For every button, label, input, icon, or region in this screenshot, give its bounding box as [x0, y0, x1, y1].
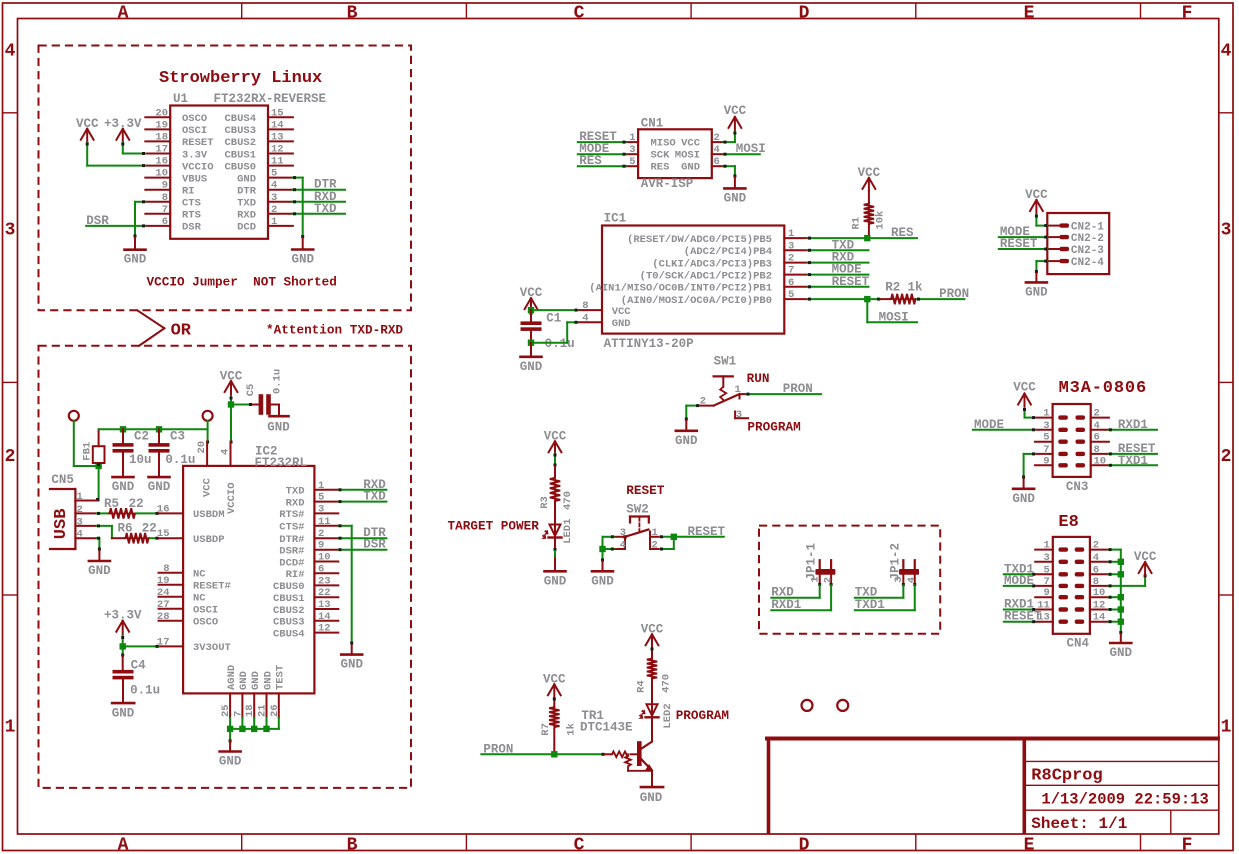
CN4 pin 5 [1035, 573, 1053, 575]
capacitor C2 [122, 429, 124, 443]
svg-text:CN2-3: CN2-3 [1071, 245, 1104, 257]
svg-text:NC: NC [193, 569, 206, 581]
svg-text:GND: GND [267, 420, 290, 434]
connector CN4 body [1053, 537, 1090, 634]
svg-text:VCC: VCC [543, 672, 566, 686]
connector CN2 body [1047, 213, 1109, 274]
svg-text:2: 2 [652, 540, 658, 552]
SW2 pin 4 [614, 548, 625, 550]
svg-text:B: B [347, 3, 358, 23]
net DTR wire from U1 pin4 [293, 189, 345, 191]
net PRON wire to TR1 base [481, 753, 604, 755]
svg-text:F: F [1182, 3, 1193, 23]
svg-text:4: 4 [1093, 552, 1099, 564]
CN4 pin 12 [1090, 609, 1109, 611]
svg-text:CBUS2: CBUS2 [273, 605, 305, 617]
svg-text:C3: C3 [170, 430, 185, 444]
svg-text:+3.3V: +3.3V [104, 117, 142, 131]
ground symbol below SW2 [602, 561, 604, 571]
net RXD wire from U1 pin3 [293, 201, 345, 203]
U1 pin 2 (RXD) [268, 213, 293, 215]
svg-text:Strowberry Linux: Strowberry Linux [159, 69, 322, 88]
CN2 pin CN2-4 [1047, 260, 1060, 262]
net RESET wire from IC1 pin6 [808, 286, 869, 288]
CN1 pin 4 (MOSI) [712, 153, 724, 155]
net RXD1 wire from CN3 pin4 [1109, 429, 1157, 431]
CN4 pin 10 [1090, 596, 1109, 598]
svg-text:CBUS2: CBUS2 [224, 137, 256, 149]
svg-text:8: 8 [163, 563, 169, 575]
svg-text:14: 14 [1093, 612, 1106, 624]
connector CN3 body [1053, 404, 1091, 477]
wire CN4 rail to GND [1119, 631, 1122, 634]
power VCC symbol above R1 [863, 178, 869, 189]
svg-text:GND: GND [340, 658, 363, 672]
svg-text:GND: GND [148, 480, 171, 494]
svg-text:GND: GND [112, 707, 135, 721]
svg-text:20: 20 [196, 441, 208, 454]
svg-text:16: 16 [155, 156, 168, 168]
svg-text:GND: GND [124, 253, 147, 267]
svg-text:19: 19 [155, 119, 168, 131]
CN4 pin 7 [1035, 585, 1053, 587]
junction PB0/MOSI [864, 296, 870, 302]
svg-text:TXD: TXD [286, 486, 305, 498]
svg-text:USB: USB [52, 509, 71, 540]
U1 pin 11 (CBUS0) [268, 165, 293, 167]
svg-text:RUN: RUN [747, 371, 770, 386]
IC IC2 FT232RL body [183, 466, 314, 694]
svg-text:27: 27 [157, 599, 170, 611]
svg-text:4: 4 [220, 449, 232, 455]
svg-text:11: 11 [271, 156, 284, 168]
svg-text:B: B [347, 835, 358, 854]
svg-text:CBUS1: CBUS1 [273, 593, 305, 605]
open pad circle left [69, 411, 79, 421]
svg-text:C5: C5 [245, 384, 257, 397]
power VCC symbol above R4 [646, 634, 652, 645]
svg-text:CBUS3: CBUS3 [224, 125, 256, 137]
svg-text:12: 12 [271, 144, 284, 156]
svg-text:10k: 10k [875, 211, 887, 230]
svg-text:GND: GND [262, 671, 274, 690]
junction C1 bottom [528, 340, 534, 346]
ground symbol below C5 [270, 415, 289, 418]
svg-text:1: 1 [77, 491, 83, 503]
net RESET wire to CN1 pin1 [578, 141, 626, 143]
svg-text:10: 10 [318, 552, 331, 564]
svg-text:MOSI: MOSI [675, 150, 700, 162]
svg-text:7: 7 [1043, 444, 1049, 456]
svg-text:2: 2 [700, 396, 706, 408]
wire left circle to FB1 bottom [73, 421, 75, 466]
svg-text:DSR: DSR [363, 538, 386, 552]
IC2 pin 11 (CTS#) [314, 525, 338, 527]
IC2 pin 10 (DCD#) [314, 561, 338, 563]
svg-text:VCC: VCC [1013, 380, 1036, 394]
svg-text:16: 16 [157, 503, 170, 515]
dashed module box Strowberry Linux [39, 46, 412, 311]
IC2 pin 23 (CBUS0) [314, 584, 338, 586]
power VCC symbol above CN1 [729, 117, 735, 128]
svg-text:PROGRAM: PROGRAM [747, 420, 800, 435]
svg-text:9: 9 [1043, 455, 1049, 467]
net MOSI wire from CN1 pin4 [723, 153, 759, 155]
CN4 pin 13 [1035, 621, 1053, 623]
svg-text:21: 21 [257, 704, 269, 717]
svg-text:3: 3 [736, 409, 742, 421]
junction R7/PRON [551, 751, 557, 757]
svg-text:M3A-0806: M3A-0806 [1059, 379, 1147, 398]
svg-text:C4: C4 [131, 659, 147, 673]
svg-text:PRON: PRON [483, 742, 513, 756]
U1 pin 6 (DSR) [145, 225, 170, 227]
svg-text:RI#: RI# [286, 569, 305, 581]
net RXD wire to JP1-1 pin 1 [819, 585, 821, 597]
svg-text:22: 22 [318, 587, 331, 599]
IC U1 FT232RX-REVERSE body [170, 106, 268, 239]
wire IC2 CTS# pin11 to GND [338, 525, 351, 527]
U1 pin 20 (OSCO) [145, 116, 170, 118]
U1 pin 8 (CTS) [145, 201, 170, 203]
svg-text:DSR: DSR [182, 222, 202, 234]
svg-text:GND: GND [612, 318, 631, 330]
svg-text:14: 14 [271, 119, 284, 131]
svg-text:8: 8 [582, 300, 588, 312]
svg-text:0.1u: 0.1u [130, 683, 160, 697]
ground symbol below TR1 [641, 786, 663, 789]
OR chevron mark [137, 310, 164, 328]
CN1 pin 6 (GND) [712, 165, 724, 167]
svg-text:4: 4 [5, 42, 16, 62]
svg-text:VCC: VCC [1025, 188, 1048, 202]
svg-text:1: 1 [735, 384, 741, 396]
ground symbol below CN3 [1023, 478, 1025, 488]
svg-text:GND: GND [291, 253, 314, 267]
net PRON wire from R2 [917, 298, 964, 300]
svg-text:OR: OR [171, 322, 192, 341]
junction CN4 rail 4 [1118, 606, 1124, 612]
svg-text:LED1: LED1 [562, 519, 574, 544]
CN3 pin 7 [1035, 453, 1053, 455]
svg-text:VCCIO Jumper NOT Shorted: VCCIO Jumper NOT Shorted [147, 275, 337, 290]
svg-text:R5: R5 [104, 497, 119, 511]
svg-text:TEST: TEST [275, 665, 287, 690]
SW1 lever [714, 394, 740, 406]
SW2 lever [625, 530, 648, 537]
svg-text:RESET#: RESET# [193, 581, 231, 593]
frame column ticks [241, 3, 243, 19]
net MODE wire to CN3 pin3 [973, 429, 1035, 431]
svg-text:E8: E8 [1058, 513, 1078, 532]
IC1 pin 3 (PB4) [784, 249, 807, 251]
CN3 pin 10 [1091, 464, 1109, 466]
IC1 pin 1 (PB5) [784, 237, 807, 239]
svg-text:SW1: SW1 [714, 355, 737, 369]
svg-text:4: 4 [620, 540, 626, 552]
svg-text:NC: NC [193, 593, 206, 605]
svg-text:6: 6 [1093, 564, 1099, 576]
svg-text:28: 28 [157, 611, 170, 623]
svg-text:TXD: TXD [363, 490, 386, 504]
svg-text:2: 2 [714, 132, 720, 144]
svg-text:SCK: SCK [651, 150, 671, 162]
svg-text:+3.3V: +3.3V [104, 609, 142, 623]
mounting hole circle 1 [802, 700, 813, 711]
svg-text:14: 14 [318, 611, 331, 623]
svg-text:1: 1 [318, 480, 324, 492]
power VCC symbol at CN4 [1139, 562, 1145, 573]
capacitor C5 [250, 404, 259, 406]
power VCC symbol above IC2 [225, 381, 231, 392]
svg-text:24: 24 [157, 587, 170, 599]
resistor R2 1k [880, 298, 890, 300]
svg-text:2: 2 [788, 253, 794, 265]
U1 pin 12 (CBUS1) [268, 153, 293, 155]
IC2 bottom pin 7 (GND) [241, 693, 243, 717]
svg-text:2: 2 [1093, 540, 1099, 552]
ground symbol below C4 [112, 702, 134, 705]
U1 pin 17 (3.3V) [145, 153, 170, 155]
svg-text:IC1: IC1 [604, 211, 627, 225]
SW2 pin 2 [650, 548, 660, 550]
svg-text:5: 5 [318, 492, 324, 504]
U1 pin 10 (VBUS) [145, 177, 170, 179]
CN4 pin 6 [1090, 573, 1109, 575]
svg-text:470: 470 [562, 491, 574, 510]
junction C3 top [156, 426, 162, 432]
CN2 pin CN2-3 [1047, 248, 1060, 250]
svg-text:C: C [574, 835, 585, 854]
svg-text:RXD1: RXD1 [771, 598, 801, 612]
U1 pin 16 (VCCIO) [145, 165, 170, 167]
CN3 pin 2 [1091, 417, 1109, 419]
svg-text:RXD1: RXD1 [1118, 418, 1148, 432]
svg-text:1/13/2009 22:59:13: 1/13/2009 22:59:13 [1041, 791, 1208, 809]
CN4 pin 11 [1035, 609, 1053, 611]
ferrite bead FB1 [98, 429, 100, 446]
svg-text:CBUS4: CBUS4 [273, 628, 305, 640]
svg-text:R3: R3 [539, 496, 551, 509]
resistor R5 22 on USBDM line [97, 512, 108, 514]
U1 pin 4 (DTR) [268, 189, 293, 191]
IC2 pin 27 (OSCI) [159, 608, 184, 610]
svg-text:2: 2 [822, 577, 834, 583]
svg-text:2: 2 [318, 528, 324, 540]
SW2 contact bars [624, 537, 626, 549]
CN3 pin 4 [1091, 429, 1109, 431]
svg-text:2: 2 [1094, 408, 1100, 420]
CN5 pin 3 [75, 525, 97, 527]
svg-text:4: 4 [714, 144, 720, 156]
IC2 pin 22 (CBUS1) [314, 596, 338, 598]
IC2 pin 8 (NC) [159, 572, 184, 574]
svg-text:5: 5 [788, 289, 794, 301]
ground symbol below CN4 [1120, 634, 1122, 643]
title block thick left line [767, 739, 771, 834]
U1 pin 14 (CBUS3) [268, 128, 293, 130]
svg-text:3: 3 [5, 221, 16, 241]
power +3.3V symbol near C4 [116, 621, 122, 632]
wire CN4 even pins ground rail [1109, 549, 1121, 551]
wire top bus [99, 428, 208, 430]
jumper JP1-1 [815, 569, 835, 575]
svg-text:VCC: VCC [220, 370, 243, 384]
CN3 pin 1 [1035, 417, 1053, 419]
IC2 pin 9 (DSR#) [314, 549, 338, 551]
LED LED1 [550, 525, 561, 536]
junction CN4 rail 5 [1118, 619, 1124, 625]
svg-text:CBUS3: CBUS3 [273, 617, 305, 629]
svg-text:2: 2 [271, 204, 277, 216]
svg-text:VCC: VCC [202, 477, 214, 497]
svg-text:GND: GND [219, 755, 242, 769]
svg-text:GND: GND [112, 480, 135, 494]
svg-text:MOSI: MOSI [736, 142, 766, 156]
svg-text:3: 3 [318, 503, 324, 515]
IC2 pin 3 (RTS#) [314, 512, 338, 514]
svg-text:GND: GND [591, 574, 614, 588]
svg-text:MODE: MODE [974, 418, 1004, 432]
svg-text:8: 8 [162, 192, 168, 204]
svg-text:3: 3 [271, 192, 277, 204]
svg-text:D: D [799, 835, 810, 854]
wire FB1 bottom to CN5 pin1 [98, 466, 100, 501]
svg-text:10: 10 [155, 168, 168, 180]
svg-text:3: 3 [788, 240, 794, 252]
svg-text:AGND: AGND [226, 665, 238, 690]
svg-text:DCD#: DCD# [279, 557, 304, 569]
wire VCC to CN2-1 [1035, 215, 1037, 226]
U1 pin 5 (GND) [268, 177, 293, 179]
svg-text:DTR#: DTR# [279, 534, 304, 546]
IC2 pin 15 (USBDP) [159, 537, 184, 539]
CN2 pin CN2-2 [1047, 236, 1060, 238]
svg-text:(T0/SCK/ADC1/PCI2)PB2: (T0/SCK/ADC1/PCI2)PB2 [640, 270, 772, 282]
net RXD1 wire to CN4 pin11 [1004, 609, 1035, 611]
net label DSR / wire to U1 pin6 [86, 225, 145, 227]
svg-text:4: 4 [77, 529, 83, 541]
svg-text:1: 1 [1043, 408, 1049, 420]
svg-text:VCC: VCC [1134, 550, 1157, 564]
svg-text:9: 9 [1043, 587, 1049, 599]
CN1 pin 2 (VCC) [712, 141, 724, 143]
svg-text:DSR: DSR [86, 214, 109, 228]
svg-text:RES: RES [651, 162, 670, 174]
wire bus to ground [229, 729, 231, 740]
wire +3.3V to IC2 3V3OUT pin17 [124, 645, 158, 647]
svg-text:RESET: RESET [1004, 610, 1042, 624]
CN3 pin 5 [1035, 441, 1053, 443]
net MOSI branch wire [866, 299, 868, 322]
ground symbol below U1 right [302, 238, 304, 250]
wire VCC to R3 [554, 454, 556, 467]
CN4 pin 14 [1090, 621, 1109, 623]
IC1 pin 6 (PB1) [784, 286, 807, 288]
U1 pin 7 (RTS) [145, 213, 170, 215]
svg-text:GND: GND [675, 434, 698, 448]
svg-text:RXD: RXD [286, 497, 305, 509]
svg-text:1: 1 [1043, 540, 1049, 552]
svg-text:VCC: VCC [641, 622, 664, 636]
wire TR1 emitter to GND [651, 771, 653, 787]
svg-text:(RESET/DW/ADC0/PCI5)PB5: (RESET/DW/ADC0/PCI5)PB5 [627, 234, 772, 246]
IC2 pin 17 (3V3OUT) [159, 645, 184, 647]
wire SW1 pin2 to GND [686, 405, 699, 407]
IC2 pin 19 (RESET#) [159, 584, 184, 586]
CN5 pin 2 [75, 512, 97, 514]
svg-text:PRON: PRON [939, 287, 969, 301]
CN3 pin 8 [1091, 453, 1109, 455]
svg-text:DCD: DCD [237, 222, 256, 234]
wire IC1 PB0 pin5 to R2 [808, 298, 880, 300]
svg-text:7: 7 [162, 204, 168, 216]
net TXD wire from IC2 RXD pin5 [338, 501, 386, 503]
wire +3.3V to U1 pin17 [122, 142, 124, 154]
svg-text:GND: GND [1110, 646, 1133, 660]
svg-text:TXD1: TXD1 [855, 598, 885, 612]
junction CN4 rail 2 [1118, 571, 1124, 577]
svg-text:GND: GND [88, 564, 111, 578]
U1 pin 15 (CBUS4) [268, 116, 293, 118]
junction VCC/C1 [528, 307, 534, 313]
svg-text:GND: GND [250, 671, 262, 690]
svg-text:RESET: RESET [626, 483, 664, 498]
wire IC2 ground bus [229, 718, 231, 729]
svg-text:1: 1 [271, 216, 277, 228]
CN4 pin 2 [1090, 549, 1109, 551]
connector CN5 USB bracket [50, 488, 75, 490]
wire SW2 right pins to RESET net [660, 536, 724, 538]
svg-text:CTS#: CTS# [279, 522, 304, 534]
capacitor C1 [530, 310, 532, 321]
net TXD1 wire to JP1-2 pin 4 [914, 585, 916, 610]
svg-text:18: 18 [244, 704, 256, 717]
IC2 pin 6 (RI#) [314, 572, 338, 574]
net TXD wire from U1 pin2 [293, 213, 345, 215]
svg-text:8: 8 [1094, 444, 1100, 456]
svg-text:SW2: SW2 [626, 503, 649, 517]
wire CN1 pin2 to VCC [723, 141, 735, 143]
svg-text:R4: R4 [636, 680, 648, 693]
wire VCC to U1 pin16 [86, 142, 88, 166]
svg-text:13: 13 [271, 131, 284, 143]
junction CN4 rail 3 [1118, 594, 1124, 600]
title block row lines [1026, 760, 1219, 762]
svg-text:12: 12 [318, 623, 331, 635]
net RXD wire from IC1 pin2 [808, 262, 869, 264]
wire VCC to IC1 pin8 [531, 309, 578, 311]
SW1 pin 3 [734, 412, 736, 419]
resistor R4 470 [651, 648, 653, 657]
capacitor C3 [158, 429, 160, 443]
svg-text:9: 9 [318, 540, 324, 552]
wire junction to C5 [231, 404, 250, 406]
svg-text:7: 7 [1043, 576, 1049, 588]
wire U1 GND pin5 to ground [293, 177, 303, 179]
svg-text:10: 10 [1094, 455, 1107, 467]
frame row ticks [3, 112, 18, 114]
svg-text:LED2: LED2 [662, 703, 674, 728]
svg-text:5: 5 [1043, 432, 1049, 444]
svg-text:GND: GND [724, 191, 747, 205]
net RESET wire from CN3 pin8 [1109, 453, 1157, 455]
svg-text:RES: RES [579, 154, 602, 168]
power VCC symbol above R7 [548, 684, 554, 695]
net TXD wire from IC1 pin3 [808, 249, 869, 251]
svg-text:CTS: CTS [182, 198, 201, 210]
svg-text:5: 5 [271, 168, 277, 180]
